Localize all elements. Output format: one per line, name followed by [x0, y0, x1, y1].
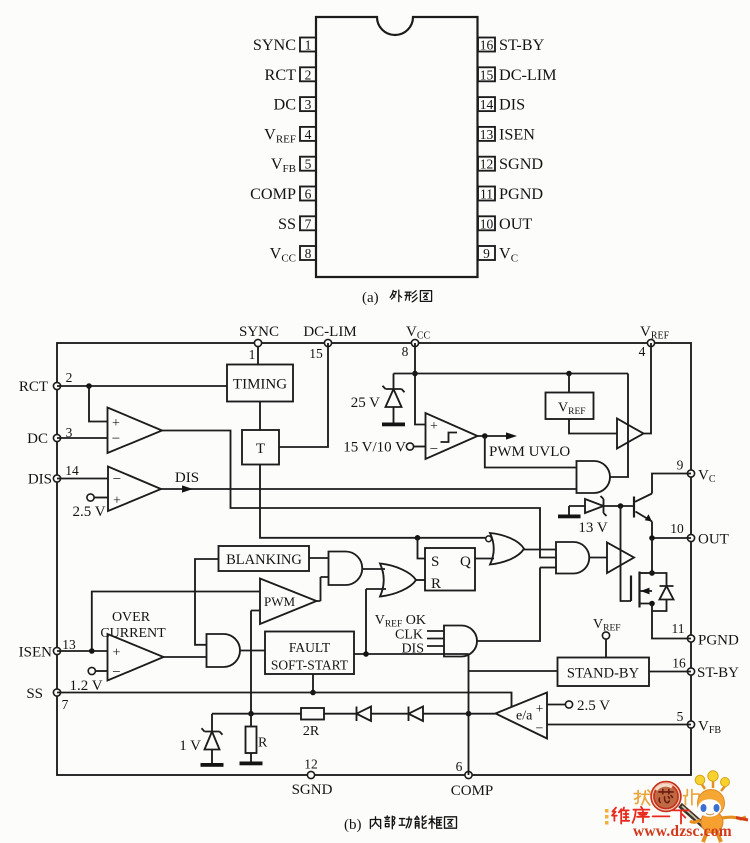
wire comparator C output to fault AND — [164, 656, 207, 658]
wire TIMING to T — [259, 402, 261, 431]
svg-text:+: + — [536, 701, 544, 716]
svg-text:DC-LIM: DC-LIM — [499, 66, 557, 84]
pin 2 RCT — [265, 66, 316, 84]
svg-text:ISEN: ISEN — [19, 645, 53, 661]
wire SS line — [57, 693, 512, 708]
svg-text:COMP: COMP — [250, 185, 296, 203]
wire NOR output to output AND — [524, 549, 556, 551]
svg-text:−: − — [112, 665, 120, 681]
wire comparator A output to output AND middle input — [162, 431, 556, 558]
svg-text:DC: DC — [27, 431, 48, 447]
svg-text:15: 15 — [480, 67, 494, 82]
svg-text:www.dzsc.com: www.dzsc.com — [633, 823, 732, 840]
pin 7 SS — [278, 215, 316, 233]
svg-text:+: + — [430, 419, 438, 434]
svg-text:e/a: e/a — [516, 709, 533, 724]
wire OUT node down to MOSFET drain — [649, 538, 655, 576]
wire fault AND to FAULT block — [240, 650, 265, 652]
svg-text:+: + — [113, 494, 121, 509]
pin 5 VFB — [271, 155, 316, 175]
pin 16 ST-BY — [478, 36, 545, 54]
AND gate 3-input status — [427, 626, 477, 657]
node DC pin 3 — [27, 425, 72, 447]
svg-text:R: R — [431, 576, 441, 592]
svg-text:OUT: OUT — [698, 532, 729, 548]
svg-text:DC-LIM: DC-LIM — [303, 324, 356, 340]
node SS pin 7 — [26, 686, 68, 712]
svg-text:+: + — [113, 646, 121, 661]
pin 4 VREF — [264, 125, 316, 145]
node ISEN pin 13 — [19, 637, 76, 661]
caption (b) internal block diagram — [344, 816, 457, 833]
wire BLANKING right to AND2 input — [309, 557, 329, 559]
svg-text:PGND: PGND — [698, 633, 739, 649]
svg-text:VREF: VREF — [264, 125, 296, 145]
label VREF OK CLK DIS — [375, 613, 426, 657]
wire ISEN to PWM comparator input — [92, 592, 260, 652]
svg-text:ISEN: ISEN — [499, 125, 535, 143]
svg-text:3: 3 — [305, 97, 312, 112]
svg-text:7: 7 — [305, 216, 312, 231]
node RCT pin 2 — [19, 370, 73, 395]
wire UVLO AND output up to VCC rail — [610, 374, 628, 478]
svg-text:4: 4 — [639, 344, 646, 359]
pin 9 VC — [478, 245, 518, 265]
IC package U1 outline (DIP-16) — [316, 17, 478, 277]
zener diode 13V at base — [569, 496, 608, 536]
svg-text:9: 9 — [677, 458, 684, 473]
svg-text:BLANKING: BLANKING — [226, 552, 302, 568]
svg-text:DIS: DIS — [401, 642, 424, 657]
resistor 2R — [248, 708, 324, 739]
AND gate UVLO — [577, 461, 611, 493]
wire OR2 lower input from fault line — [366, 589, 386, 654]
svg-text:(a): (a) — [362, 290, 379, 306]
wire DIS pin to comparator B minus input — [57, 478, 108, 480]
svg-text:VREF: VREF — [593, 617, 621, 634]
AND gate fault — [207, 634, 241, 667]
wire to 1V zener — [212, 714, 251, 732]
svg-text:16: 16 — [480, 38, 494, 53]
svg-text:1 V: 1 V — [179, 738, 201, 754]
wire VC pin 9 to transistor collector — [652, 474, 691, 494]
node PGND pin 11 — [672, 621, 740, 649]
svg-text:STAND-BY: STAND-BY — [567, 666, 640, 682]
wire VREF block to buffer input — [569, 419, 617, 434]
svg-text:VFB: VFB — [698, 719, 721, 737]
ground under R — [240, 762, 263, 766]
block STAND-BY — [558, 658, 650, 687]
svg-text:CURRENT: CURRENT — [100, 626, 166, 641]
svg-text:VREF: VREF — [558, 401, 586, 418]
wire AND2 output to OR2 input — [362, 568, 385, 570]
pin 8 VCC — [270, 245, 316, 265]
svg-text:DIS: DIS — [28, 472, 52, 488]
svg-text:12: 12 — [304, 757, 318, 772]
svg-text:(b): (b) — [344, 817, 362, 833]
svg-text:+: + — [112, 416, 120, 431]
wire OR2 output to latch R — [416, 579, 425, 581]
node ST-BY pin 16 — [672, 656, 739, 682]
buffer amp VREF — [617, 419, 644, 449]
zener diode 25V — [351, 374, 405, 423]
svg-text:25 V: 25 V — [351, 395, 380, 411]
resistor R — [246, 714, 269, 762]
wire rail to VREF block — [568, 374, 570, 393]
caption (a) outline drawing — [362, 290, 432, 306]
pin 11 PGND — [478, 185, 543, 203]
svg-text:9: 9 — [483, 246, 490, 261]
wire latch Q to NOR input — [475, 558, 494, 560]
watermark dzsc logo — [605, 771, 748, 842]
node SYNC pin 1 — [239, 324, 279, 362]
node VFB pin 5 — [677, 709, 722, 736]
diode D1 — [324, 707, 371, 722]
svg-text:SOFT-START: SOFT-START — [271, 658, 349, 673]
svg-text:8: 8 — [305, 246, 312, 261]
svg-text:−: − — [112, 431, 120, 447]
wire FAULT block bottom to SS line — [310, 674, 316, 695]
ground at 13V zener — [558, 506, 581, 518]
transistor Q1 NPN — [634, 494, 652, 539]
wire FAULT block right to comp node — [354, 651, 469, 657]
wire DC-LIM pin 15 to T — [279, 343, 328, 447]
pin 13 ISEN — [478, 125, 535, 143]
svg-text:5: 5 — [677, 709, 684, 724]
wire BLANKING left to fault AND input — [195, 559, 219, 645]
svg-text:DIS: DIS — [499, 96, 525, 114]
ground under 1V zener — [201, 763, 224, 767]
block VREF regulator — [546, 393, 594, 420]
node VREF above STAND-BY — [593, 617, 621, 658]
wire PWM output up to AND2 input — [317, 577, 329, 601]
svg-text:10: 10 — [480, 216, 494, 231]
AND gate output stage — [540, 542, 589, 574]
label OVER CURRENT — [100, 610, 166, 641]
zener diode 1V — [179, 728, 222, 763]
wire RCT branch to comparator A plus input — [89, 386, 108, 422]
comparator PWM — [260, 579, 317, 625]
svg-text:1: 1 — [305, 38, 312, 53]
svg-text:VCC: VCC — [406, 324, 431, 342]
node DC-LIM pin 15 — [303, 324, 356, 361]
SR latch U3 — [425, 548, 475, 592]
svg-text:ST-BY: ST-BY — [499, 36, 545, 54]
svg-text:CLK: CLK — [395, 628, 423, 643]
svg-text:SS: SS — [26, 686, 43, 702]
buffer driver — [607, 543, 634, 574]
wire DC pin to comparator A minus input — [57, 437, 108, 439]
error amp e/a — [496, 693, 548, 739]
wire T output to NOR input and latch S — [260, 465, 485, 559]
svg-text:VREF: VREF — [640, 324, 670, 342]
svg-text:T: T — [256, 441, 265, 457]
wire emitter to OUT pin 10 — [649, 535, 691, 541]
wire schmitt output PWM UVLO — [478, 432, 571, 460]
block BLANKING — [219, 546, 310, 571]
svg-text:5: 5 — [305, 157, 312, 172]
wire schmitt output down to UVLO AND — [485, 436, 577, 468]
svg-text:15 V/10 V: 15 V/10 V — [343, 440, 406, 456]
node 2.5V at e/a — [547, 698, 610, 714]
svg-text:7: 7 — [62, 697, 69, 712]
svg-text:8: 8 — [402, 344, 409, 359]
body diode of MOSFET — [652, 573, 674, 611]
wire e/a minus to VFB pin 5 — [547, 724, 691, 726]
block TIMING — [227, 365, 293, 402]
wire gate lead from base node — [621, 506, 632, 601]
svg-text:13: 13 — [62, 637, 76, 652]
wire AND3 output to output AND lower input — [477, 568, 540, 642]
wire COMP node vertical — [466, 654, 472, 775]
svg-text:10: 10 — [670, 521, 684, 536]
node 2.5V reference at comparator B — [72, 494, 108, 520]
op-amp comparator B (DIS) — [108, 467, 161, 512]
svg-text:14: 14 — [65, 463, 79, 478]
svg-text:11: 11 — [480, 187, 493, 202]
AND gate after blanking — [329, 552, 363, 586]
node COMP pin 6 — [451, 759, 494, 799]
node 1.2V reference — [69, 667, 107, 694]
node VCC pin 8 — [402, 324, 431, 359]
svg-text:TIMING: TIMING — [233, 377, 287, 393]
svg-text:1: 1 — [249, 347, 256, 362]
svg-text:4: 4 — [305, 127, 312, 142]
wire SYNC pin1 to TIMING — [257, 343, 259, 365]
svg-text:2R: 2R — [303, 724, 320, 739]
pin 14 DIS — [478, 96, 525, 114]
MOSFET Q2 — [631, 572, 655, 608]
pin 12 SGND — [478, 155, 543, 173]
svg-text:COMP: COMP — [451, 783, 494, 799]
svg-text:SYNC: SYNC — [253, 36, 296, 54]
block diagram outer border — [57, 343, 691, 775]
svg-text:12: 12 — [480, 157, 494, 172]
svg-text:−: − — [113, 472, 121, 488]
svg-text:PWM: PWM — [264, 594, 296, 609]
pin 10 OUT — [478, 215, 532, 233]
block T (toggle) — [242, 430, 279, 465]
wire buffer output to VREF pin 4 — [644, 343, 652, 434]
svg-text:2.5 V: 2.5 V — [72, 504, 105, 520]
schmitt trigger comparator U2 — [426, 413, 478, 459]
svg-text:SGND: SGND — [292, 782, 333, 798]
svg-text:PGND: PGND — [499, 185, 543, 203]
wire VCC rail — [394, 371, 629, 377]
svg-text:13 V: 13 V — [578, 520, 607, 536]
svg-text:PWM UVLO: PWM UVLO — [489, 444, 570, 460]
node DIS pin 14 — [28, 463, 79, 488]
svg-text:2: 2 — [66, 370, 73, 385]
svg-text:16: 16 — [672, 656, 686, 671]
wire DIS signal to UVLO AND with arrow — [161, 470, 577, 493]
svg-text:R: R — [258, 736, 268, 751]
svg-text:VFB: VFB — [271, 155, 296, 175]
svg-text:6: 6 — [456, 759, 463, 774]
wire output AND to driver — [589, 557, 607, 559]
node SGND pin 12 — [292, 757, 333, 799]
pin 6 COMP — [250, 185, 316, 203]
svg-text:RCT: RCT — [19, 379, 48, 395]
svg-text:13: 13 — [480, 127, 494, 142]
svg-text:11: 11 — [672, 621, 685, 636]
svg-text:VC: VC — [499, 245, 518, 265]
node 15V/10V threshold input — [343, 440, 425, 456]
svg-text:2: 2 — [305, 67, 312, 82]
svg-text:DIS: DIS — [175, 470, 199, 486]
wire to STAND-BY block — [469, 670, 558, 672]
pin 3 DC — [274, 96, 317, 114]
svg-text:DC: DC — [274, 96, 297, 114]
svg-text:OUT: OUT — [499, 215, 532, 233]
node VC pin 9 — [677, 458, 716, 486]
svg-text:6: 6 — [305, 187, 312, 202]
svg-text:VCC: VCC — [270, 245, 296, 265]
pin 1 SYNC — [253, 36, 316, 54]
svg-text:OVER: OVER — [112, 610, 151, 625]
pin 15 DC-LIM — [478, 66, 557, 84]
diode D2 — [371, 707, 469, 722]
op-amp comparator A (DC) — [108, 408, 163, 454]
svg-text:−: − — [536, 722, 544, 737]
OR gate feeding latch R — [380, 564, 416, 597]
wire RCT to TIMING — [57, 383, 227, 389]
svg-text:15: 15 — [309, 346, 323, 361]
op-amp comparator C over current — [108, 634, 164, 681]
OR gate with inverted input (NOR) — [486, 533, 524, 565]
svg-text:−: − — [430, 442, 438, 458]
svg-text:SS: SS — [278, 215, 296, 233]
svg-text:FAULT: FAULT — [289, 640, 331, 655]
svg-text:ST-BY: ST-BY — [697, 665, 739, 681]
svg-text:SYNC: SYNC — [239, 324, 279, 340]
svg-text:RCT: RCT — [265, 66, 297, 84]
svg-text:14: 14 — [480, 97, 494, 112]
node VREF pin 4 — [639, 324, 670, 359]
wire MOSFET source to PGND pin 11 — [652, 604, 691, 639]
svg-text:VC: VC — [698, 468, 716, 486]
wire VCC pin 8 down to schmitt plus input — [412, 343, 425, 425]
wire ISEN pin to comparator C — [57, 648, 108, 654]
ground under 25V zener — [382, 423, 405, 427]
wire STAND-BY to ST-BY pin 16 — [649, 671, 691, 673]
node OUT pin 10 — [670, 521, 729, 548]
svg-text:S: S — [431, 554, 439, 570]
svg-text:Q: Q — [460, 554, 471, 570]
svg-text:SGND: SGND — [499, 155, 543, 173]
block FAULT SOFT-START — [265, 632, 354, 675]
wire e/a output to COMP node — [469, 713, 496, 715]
svg-text:2.5 V: 2.5 V — [577, 698, 610, 714]
wire base line — [604, 503, 635, 509]
wire divider node to PWM comparator input — [251, 611, 260, 714]
